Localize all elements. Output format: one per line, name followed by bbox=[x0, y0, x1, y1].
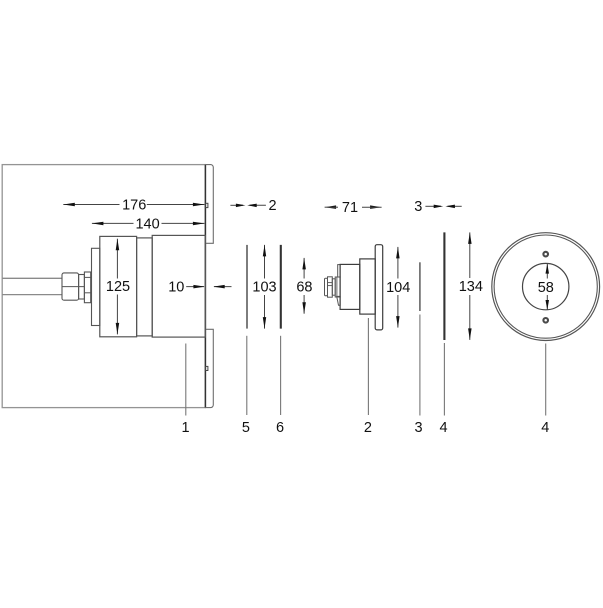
leader line item 4b bbox=[545, 344, 547, 416]
gland cap nut bbox=[62, 273, 84, 300]
bezel plate lower segment bbox=[205, 329, 213, 407]
dimension 176 text bbox=[122, 197, 146, 213]
svg-text:71: 71 bbox=[342, 200, 358, 216]
upper screw hole bbox=[543, 252, 548, 257]
svg-text:134: 134 bbox=[459, 279, 483, 295]
dimension 125 line bbox=[116, 239, 118, 335]
gland hex body bbox=[84, 272, 90, 303]
dimension 2 line bbox=[230, 204, 266, 206]
svg-text:6: 6 bbox=[276, 420, 284, 436]
gland middle sleeve bbox=[79, 275, 85, 300]
svg-text:2: 2 bbox=[268, 198, 276, 214]
svg-text:4: 4 bbox=[541, 420, 549, 436]
dimension 104 arrows bbox=[396, 247, 400, 328]
dimension 71 line bbox=[325, 206, 382, 208]
dimension 58 line bbox=[546, 264, 548, 310]
svg-text:2: 2 bbox=[364, 420, 372, 436]
housing front shell bbox=[152, 235, 205, 337]
dimension 3 line bbox=[425, 205, 461, 207]
trim ring outer circle bbox=[492, 233, 600, 341]
dimension 103 arrows bbox=[263, 245, 266, 329]
svg-text:103: 103 bbox=[252, 280, 276, 296]
lamp gland cap bbox=[325, 278, 328, 296]
svg-text:68: 68 bbox=[296, 279, 312, 295]
dimension 71 text bbox=[342, 200, 358, 216]
dimension 10 text bbox=[168, 280, 184, 296]
item label 4 at x=545 bbox=[541, 420, 549, 436]
dimension 10 arrows bbox=[193, 285, 224, 289]
dimension 58 text bbox=[538, 280, 554, 296]
leader line item 4a bbox=[443, 343, 445, 416]
wall section bbox=[2, 165, 205, 408]
lamp lower tab bbox=[337, 296, 340, 305]
svg-text:4: 4 bbox=[440, 420, 448, 436]
lower fixing clip bbox=[205, 366, 208, 370]
lamp rear body bbox=[340, 264, 360, 309]
dimension 2 arrows bbox=[236, 204, 257, 208]
lamp upper tab bbox=[338, 265, 340, 277]
svg-text:3: 3 bbox=[414, 199, 422, 215]
dimension 134 text bbox=[459, 279, 483, 295]
dimension 176 line bbox=[63, 204, 204, 206]
item label 5 at x=246 bbox=[242, 420, 250, 436]
dimension 71 arrows bbox=[325, 205, 382, 209]
dimension 140 arrows bbox=[92, 222, 204, 226]
gasket part 6 bbox=[280, 245, 282, 329]
item label 6 at x=280 bbox=[276, 420, 284, 436]
dimension 2 text bbox=[268, 198, 276, 214]
dimension 68 text bbox=[296, 279, 312, 295]
dimension 104 line bbox=[397, 247, 399, 328]
svg-text:140: 140 bbox=[135, 216, 159, 232]
dimension 103 line bbox=[264, 245, 266, 329]
dimension 176 arrows bbox=[63, 203, 204, 206]
trim ring inner rim circle bbox=[494, 235, 597, 338]
gasket part 5 bbox=[246, 245, 248, 329]
dimension 140 text bbox=[135, 216, 159, 232]
svg-text:58: 58 bbox=[538, 280, 554, 296]
leader line item 3 bbox=[419, 315, 421, 416]
lamp mid body bbox=[360, 259, 375, 314]
trim ring aperture circle bbox=[523, 263, 569, 309]
lamp front bezel bbox=[375, 245, 383, 330]
housing main shell 125 bbox=[100, 236, 137, 336]
dimension 125 arrows bbox=[116, 239, 120, 335]
lamp gland base bbox=[335, 277, 340, 297]
dimension 134 arrows bbox=[468, 232, 472, 340]
dimension 3 text bbox=[414, 199, 422, 215]
clip ring part 3 bbox=[419, 262, 421, 311]
dimension 68 line bbox=[303, 258, 305, 314]
leader line item 5 bbox=[246, 336, 248, 415]
item label 4 at x=444 bbox=[440, 420, 448, 436]
housing rear flange ring bbox=[92, 248, 100, 325]
wall front face line bbox=[204, 165, 206, 408]
item label 3 at x=418 bbox=[414, 420, 422, 436]
dimension 58 arrows bbox=[546, 264, 550, 310]
leader line item 1 bbox=[185, 344, 187, 416]
item label 2 at x=368 bbox=[364, 420, 372, 436]
svg-text:125: 125 bbox=[106, 279, 130, 295]
upper fixing clip bbox=[205, 203, 208, 207]
lamp gland nut bbox=[328, 277, 333, 297]
svg-text:3: 3 bbox=[414, 420, 422, 436]
svg-text:5: 5 bbox=[242, 420, 250, 436]
leader line item 6 bbox=[280, 336, 282, 415]
housing middle collar bbox=[137, 238, 153, 336]
bezel plate upper segment bbox=[205, 165, 213, 244]
svg-text:176: 176 bbox=[122, 197, 146, 213]
dimension 140 line bbox=[92, 222, 204, 224]
leader line item 2 bbox=[367, 318, 369, 415]
svg-text:10: 10 bbox=[168, 280, 184, 296]
dimension 103 text bbox=[252, 280, 276, 296]
dimension 104 text bbox=[386, 280, 410, 296]
svg-text:104: 104 bbox=[386, 280, 410, 296]
dimension 3 arrows bbox=[434, 205, 455, 209]
svg-text:1: 1 bbox=[182, 420, 190, 436]
dimension 10 lines bbox=[186, 286, 231, 288]
item label 1 at x=186 bbox=[182, 420, 190, 436]
lamp gland sleeve bbox=[332, 279, 335, 295]
dimension 68 arrows bbox=[302, 258, 306, 314]
dimension 125 text bbox=[106, 279, 130, 295]
dimension 134 line bbox=[469, 232, 471, 340]
lower screw hole bbox=[543, 318, 548, 323]
supply cable bbox=[2, 278, 62, 294]
trim ring part 4 side bbox=[443, 232, 445, 340]
